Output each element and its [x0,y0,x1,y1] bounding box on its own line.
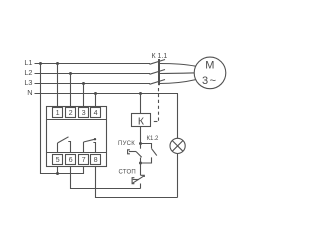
junction N to terminal 4 [94,92,97,95]
svg-text:2: 2 [69,108,73,117]
coil K box [132,114,151,127]
wire coil to start button [140,127,142,144]
relay contact 5-6 blade [58,137,69,143]
terminal 4 [91,108,101,118]
wire phase 1 to motor [160,64,196,67]
wire left feed from L1 to terminals 5 and 7 [41,64,84,174]
terminal 8 [91,155,101,165]
junction L1 to terminal 1 [56,62,59,65]
svg-text:L3: L3 [24,78,32,87]
junction terminal 5 feed [56,172,59,175]
junction N to coil K [139,92,142,95]
motor M1 circle [194,57,226,89]
svg-text:3~: 3~ [202,75,218,87]
svg-text:М: М [205,60,214,72]
terminal 1 [53,108,63,118]
wire drop to terminal 3 [83,84,85,107]
svg-text:6: 6 [69,155,73,164]
terminal 6 [66,155,76,165]
start button actuator bracket [128,150,130,154]
wire L3 horizontal [35,83,151,85]
junction L3 to terminal 3 [82,82,85,85]
contactor K1.1 blade phase 3 [150,80,166,85]
contactor K1.1 to coil dashed link [158,88,160,123]
svg-text:7: 7 [82,155,86,164]
wire lamp bottom [177,154,179,198]
svg-text:ПУСК: ПУСК [118,141,135,147]
contactor K1.1 blade phase 1 [150,60,166,65]
wire drop to terminal 4 [95,94,97,107]
relay contact 5-6 fixed tick and post right [68,142,70,153]
auxiliary contact K1.2 bottom branch [141,157,152,163]
terminal 5 [53,155,63,165]
wire terminal 8 to lamp [96,167,178,198]
relay U1 body [47,107,107,167]
start button fixed top [140,144,142,149]
svg-text:L1: L1 [24,58,32,67]
terminal 2 [66,108,76,118]
svg-text:3: 3 [82,108,86,117]
stop button fixed bottom [140,184,142,189]
auxiliary contact K1.2 top branch [141,144,152,149]
relay U1 bottom band line [47,152,107,154]
svg-text:К 1.1: К 1.1 [152,53,168,60]
relay contact 7-8 blade [84,139,96,142]
svg-text:5: 5 [56,155,60,164]
coil link tick [154,121,158,123]
wire phase 2 to motor [160,72,195,75]
wire N horizontal [35,93,179,95]
terminal 7 [79,155,89,165]
auxiliary contact K1.2 blade [152,149,157,156]
junction L1 to left feed [39,62,42,65]
wire drop to terminal 1 [57,64,59,107]
start button fixed bottom [140,158,142,164]
contactor K1.1 blade phase 2 [150,70,166,75]
start button blade [136,152,142,158]
relay contact 7-8 blade dot [94,138,96,140]
svg-text:N: N [27,88,32,97]
wire terminal 5 drop [57,167,59,174]
svg-text:L2: L2 [24,68,32,77]
stop button blade [132,176,144,184]
stop button actuator bracket [132,178,134,184]
svg-text:4: 4 [94,108,98,117]
svg-text:СТОП: СТОП [118,169,136,175]
svg-text:К: К [138,115,145,127]
relay contact 7-8 post left [83,142,85,153]
relay U1 top band line [47,119,107,121]
wire N junction to coil [140,94,142,114]
stop button rod [133,179,139,181]
svg-text:8: 8 [94,155,98,164]
wire L1 horizontal [35,63,151,65]
lamp HL1 circle [170,138,185,153]
lamp HL1 cross [172,141,183,152]
start button rod [129,151,136,153]
relay contact 7-8 fixed tick and post right [93,143,95,153]
stop button fixed top [140,163,142,175]
node start bottom junction [139,162,142,165]
svg-text:К1.2: К1.2 [147,136,159,142]
relay contact 5-6 post left [57,143,59,153]
wire phase 3 to motor [160,80,196,84]
stop button seat tick [141,175,145,177]
junction L2 to terminal 2 [69,72,72,75]
svg-text:1: 1 [56,108,60,117]
contactor K1.1 linkage bar [158,59,160,85]
wire N to lamp drop [177,94,180,139]
wire terminal 6 to stop button [71,167,141,189]
wire drop to terminal 2 [70,74,72,107]
wire L2 horizontal [35,73,151,75]
terminal 3 [79,108,89,118]
node start top junction [139,142,142,145]
